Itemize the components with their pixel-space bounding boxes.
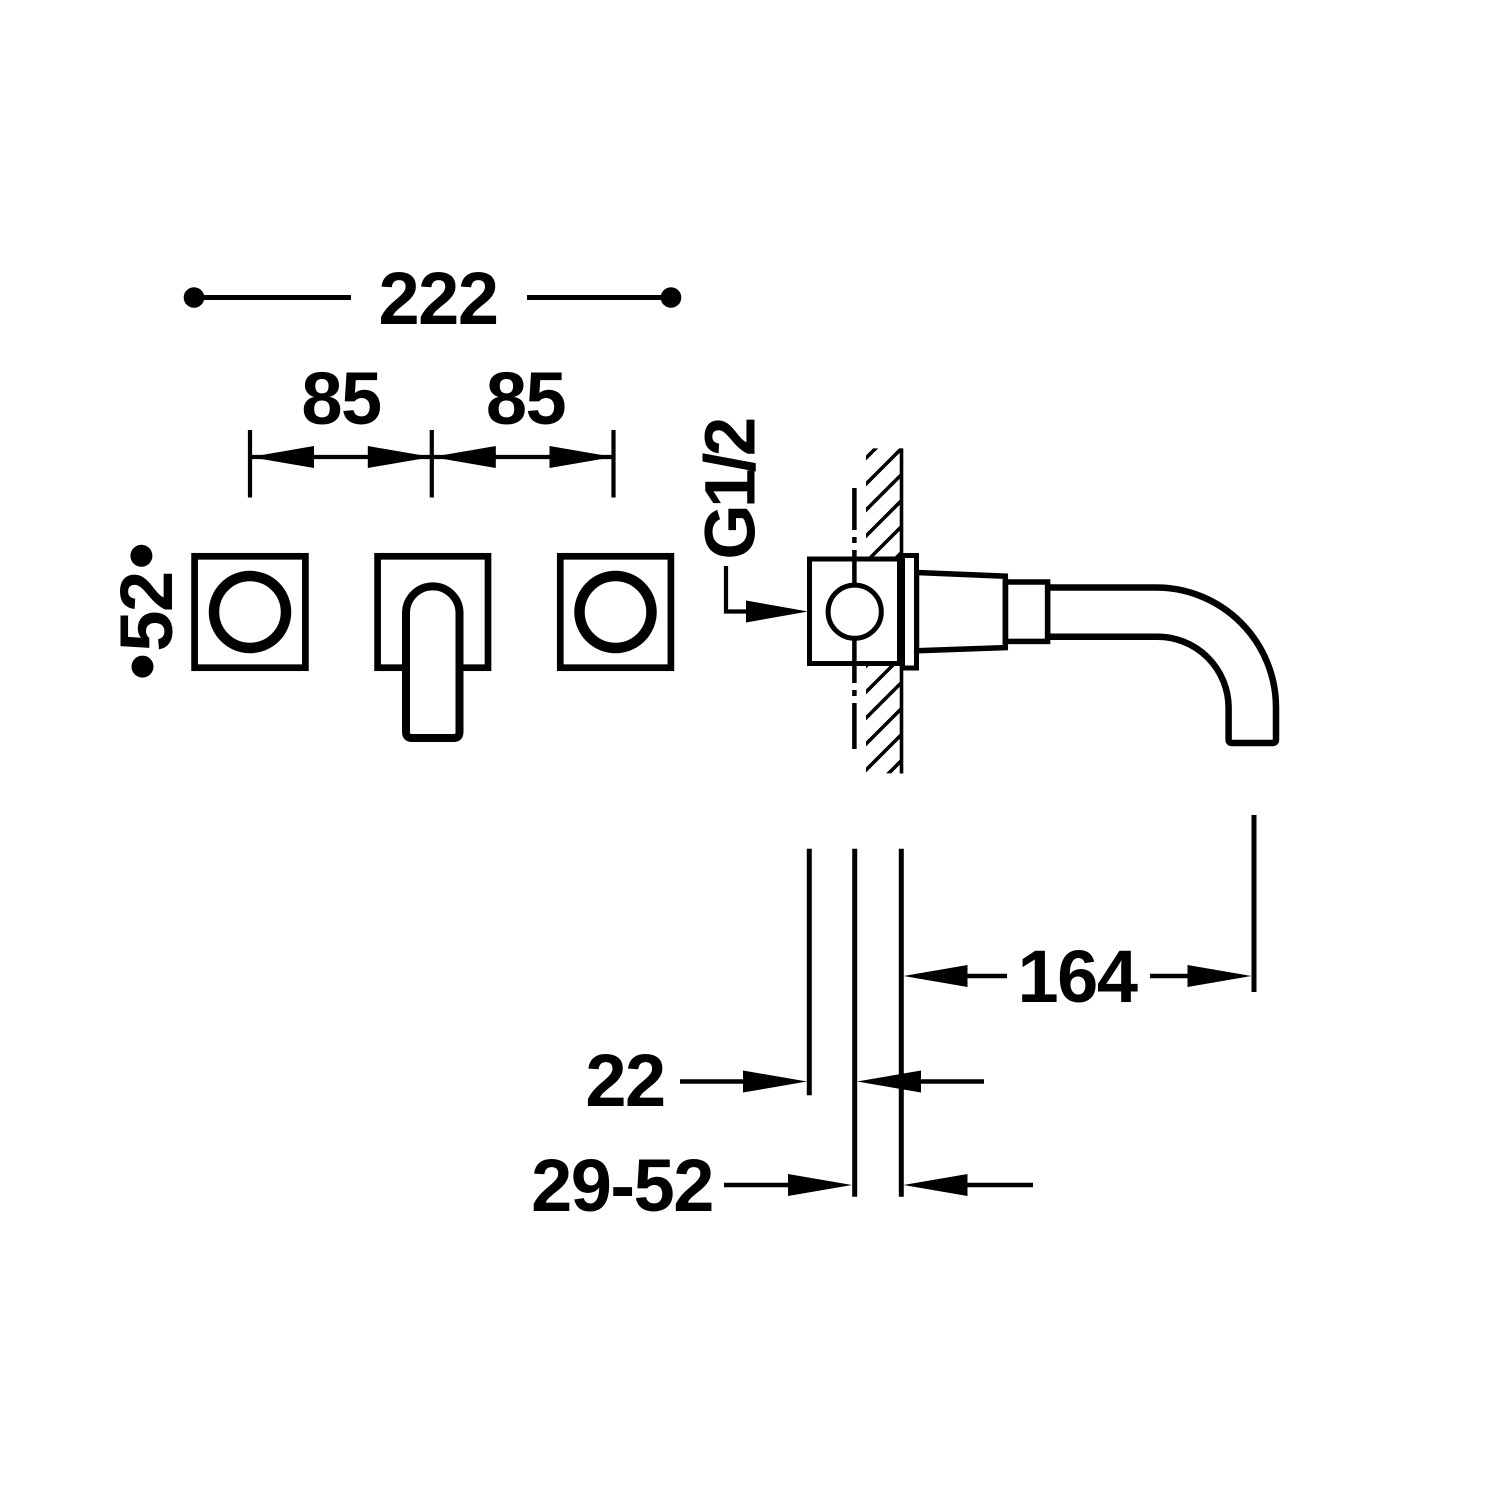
svg-text:164: 164 xyxy=(1018,935,1138,1018)
svg-text:52: 52 xyxy=(105,572,188,651)
svg-text:G1/2: G1/2 xyxy=(692,419,771,559)
svg-text:29-52: 29-52 xyxy=(531,1144,713,1227)
svg-text:22: 22 xyxy=(585,1039,664,1122)
svg-text:85: 85 xyxy=(486,357,566,440)
svg-text:222: 222 xyxy=(379,257,498,340)
svg-text:85: 85 xyxy=(301,357,381,440)
